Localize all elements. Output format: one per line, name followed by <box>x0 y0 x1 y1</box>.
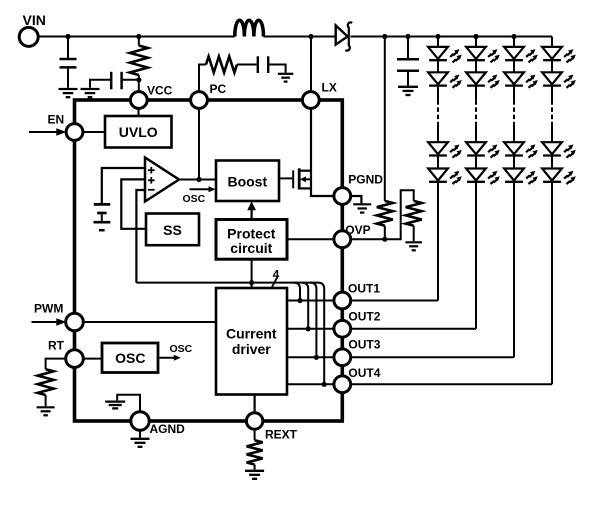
svg-text:REXT: REXT <box>265 427 298 441</box>
node OUT2 <box>334 320 351 337</box>
wire string 4 seg5 <box>551 156 553 169</box>
svg-text:OSC: OSC <box>183 193 206 205</box>
wire rail to R1 <box>138 37 140 46</box>
wire Boost to Q1 gate <box>279 177 292 179</box>
svg-text:OUT3: OUT3 <box>348 338 380 352</box>
node OVP <box>334 231 351 248</box>
resistor R4 (OVP lower) <box>406 201 422 226</box>
wire VIN rail segment A <box>37 36 235 38</box>
capacitor C3 (comp) <box>258 56 268 73</box>
LED D2a <box>466 47 500 63</box>
node REXT <box>246 413 262 429</box>
junction bus branch 4-OUT4 <box>322 382 327 387</box>
wire R3 to OVP node <box>384 226 386 240</box>
inductor L1 <box>235 20 264 36</box>
LED D2c <box>466 142 500 158</box>
diode D1 (schottky) <box>336 22 353 50</box>
wire PC node down to comp <box>198 108 200 179</box>
wire string 4 dashed continuation <box>551 100 553 124</box>
wire AGND hook to ground <box>117 395 140 413</box>
wire string 3 seg3 <box>513 86 515 101</box>
ground G9 <box>131 439 150 447</box>
svg-text:LX: LX <box>322 81 337 95</box>
resistor R6 (REXT) <box>247 440 263 464</box>
wire string 3 dashed continuation <box>513 100 515 124</box>
wire OUT4 to string 4 <box>351 383 552 385</box>
wire output rail segment <box>351 36 553 38</box>
node LED string 2 top <box>473 34 478 39</box>
wire OUT1 to string 1 <box>351 300 438 302</box>
capacitor C1 (input) <box>60 59 77 67</box>
junction rail-LX <box>308 34 313 39</box>
node AGND <box>131 412 149 430</box>
node VCC <box>130 92 147 109</box>
svg-text:OVP: OVP <box>345 223 370 237</box>
svg-text:VCC: VCC <box>147 83 173 97</box>
node OUT4 <box>334 376 351 393</box>
svg-text:driver: driver <box>232 341 271 357</box>
wire string 3 seg1 <box>513 37 515 47</box>
wire RT to R5 <box>46 359 67 370</box>
wire string 1 dashed continuation <box>437 100 439 124</box>
wire string 2 seg2 <box>475 60 477 72</box>
wire rail to C4 <box>407 37 409 59</box>
ground G5 <box>405 242 422 250</box>
wire PC node up <box>199 65 206 92</box>
svg-text:OUT1: OUT1 <box>348 281 380 295</box>
wire feedback bus <box>136 282 318 284</box>
wire string 4 seg3 <box>551 86 553 101</box>
svg-text:PGND: PGND <box>348 172 383 186</box>
wire PWM to Current driver <box>83 321 216 323</box>
wire string 2 seg3 <box>475 86 477 101</box>
wire REXT to R6 <box>254 430 256 441</box>
LED D1d <box>428 169 462 185</box>
node PGND <box>334 188 351 205</box>
wire string 2 dashed continuation <box>475 100 477 124</box>
resistor R3 (OVP upper) <box>377 201 393 226</box>
junction rail-R1 <box>136 34 141 39</box>
LED D1b <box>428 72 462 88</box>
svg-text:circuit: circuit <box>230 240 272 256</box>
block Current driver U6 <box>216 288 287 395</box>
node OUT3 <box>334 349 351 366</box>
wire bus branch 3 <box>310 283 316 358</box>
ground G2 <box>81 89 100 97</box>
svg-text:PWM: PWM <box>34 301 63 315</box>
wire string 3 seg5 <box>513 156 515 169</box>
svg-text:PC: PC <box>210 82 227 96</box>
LED D3a <box>504 47 538 63</box>
wire rail to R3 (OVP sense) <box>384 37 386 201</box>
LED D3b <box>504 72 538 88</box>
block UVLO U1 <box>105 116 172 148</box>
wire string 2 seg1 <box>475 37 477 47</box>
svg-text:4: 4 <box>273 268 280 282</box>
block SS U3 (soft start) <box>146 214 199 246</box>
capacitor C4 (output) <box>397 59 419 71</box>
wire string 1 seg3 <box>437 86 439 101</box>
svg-text:EN: EN <box>48 112 65 126</box>
svg-text:Boost: Boost <box>227 173 267 189</box>
arrow osc into Boost <box>190 186 216 192</box>
wire C2 right plate to VCC node <box>123 79 139 81</box>
wire R6 to ground <box>254 465 256 470</box>
wire Current driver to REXT <box>254 395 256 413</box>
wire RT to OSC box <box>83 358 102 360</box>
LED D1a <box>428 47 462 63</box>
wire L1 to D1 <box>264 36 336 38</box>
wire OVP node run <box>351 190 414 239</box>
wire Protect down to Current driver <box>251 259 253 288</box>
wire string 2 seg5 <box>475 156 477 169</box>
ground G7 <box>37 407 55 415</box>
arrow EN input <box>29 128 66 136</box>
resistor R2 (comp) <box>206 57 237 73</box>
wire OUT2 to string 2 <box>351 328 476 330</box>
ground G1 <box>59 89 78 97</box>
wire AGND to ground below <box>139 430 141 438</box>
svg-text:OSC: OSC <box>115 350 145 366</box>
wire string 4 seg4 <box>551 124 553 142</box>
ground G6 <box>398 87 418 95</box>
LED D3d <box>504 169 538 185</box>
wire U2 output to Boost <box>179 179 216 181</box>
terminal VIN <box>19 27 38 46</box>
wire Protect to OVP <box>287 238 334 240</box>
node RT <box>66 350 84 368</box>
LED D4d <box>542 169 576 185</box>
svg-text:OSC: OSC <box>170 343 193 355</box>
wire cap C1 lead <box>67 37 69 59</box>
junction bus branch 2-OUT2 <box>306 326 311 331</box>
arrow Protect to Boost <box>247 201 256 219</box>
wire string 1 seg2 <box>437 60 439 72</box>
wire Current driver to OUT2 <box>287 328 334 330</box>
svg-text:VIN: VIN <box>23 12 46 28</box>
wire string 2 seg4 <box>475 124 477 142</box>
wire string 3 seg2 <box>513 60 515 72</box>
wire string 1 seg5 <box>437 156 439 169</box>
wire U2 input 1 (reference) <box>102 168 145 203</box>
wire Current driver to OUT4 <box>287 383 334 385</box>
wire string 2 return to OUT2 <box>475 182 477 329</box>
arrow osc output <box>160 355 181 361</box>
wire Current driver to OUT1 <box>287 300 334 302</box>
wire R2 to C3 <box>237 64 257 66</box>
wire R4 to ground <box>413 226 415 242</box>
IC boundary <box>75 100 343 421</box>
LED D2d <box>466 169 500 185</box>
op-amp U2 (error comparator) <box>145 158 179 202</box>
svg-text:SS: SS <box>163 222 182 238</box>
resistor R5 (RT) <box>38 369 54 395</box>
wire string 4 seg1 <box>551 37 553 47</box>
ground G8 <box>105 402 125 409</box>
junction Protect-bus <box>249 280 254 285</box>
ground G3 <box>278 74 294 82</box>
node PC <box>191 92 208 109</box>
junction bus branch 3-OUT3 <box>314 355 319 360</box>
svg-text:OUT4: OUT4 <box>348 366 380 380</box>
wire UVLO to VCC <box>138 108 140 116</box>
wire C2 left plate to ground <box>90 80 110 88</box>
node LED string 1 top <box>435 34 440 39</box>
svg-text:AGND: AGND <box>150 422 186 436</box>
wire LX to Q1 drain and source to PGND <box>311 108 334 196</box>
capacitor C2 (VCC bypass) <box>111 72 121 90</box>
battery reference VREF <box>94 204 111 230</box>
ground G4 (PGND) <box>353 204 371 212</box>
wire string 3 return to OUT3 <box>513 182 515 357</box>
LED D2b <box>466 72 500 88</box>
wire EN to UVLO <box>83 131 105 133</box>
svg-text:OUT2: OUT2 <box>348 309 380 323</box>
wire string 4 seg2 <box>551 60 553 72</box>
LED D4a <box>542 47 576 63</box>
wire string 1 return to OUT1 <box>437 182 439 301</box>
wire R1 to VCC <box>138 75 140 92</box>
wire PGND to ground <box>351 196 362 203</box>
wire bus branch 2 <box>302 283 308 329</box>
wire string 1 seg1 <box>437 37 439 47</box>
node LX <box>302 92 319 109</box>
wire bus branch 4 <box>318 283 324 385</box>
wire string 1 seg4 <box>437 124 439 142</box>
svg-text:Current: Current <box>226 326 277 342</box>
transistor Q1 (power NMOS) <box>293 168 311 189</box>
wire string 3 seg4 <box>513 124 515 142</box>
svg-text:UVLO: UVLO <box>119 124 158 140</box>
svg-text:RT: RT <box>48 338 65 352</box>
wire U2 input 2 from SS <box>121 179 146 228</box>
junction rail-C1 <box>65 34 70 39</box>
junction R1-C2 <box>136 77 141 82</box>
LED D4b <box>542 72 576 88</box>
wire C1 to ground <box>67 69 69 88</box>
node PWM <box>66 313 84 331</box>
junction rail-OVP sense <box>382 34 387 39</box>
wire C3 to ground <box>269 65 285 73</box>
wire string 4 return to OUT4 <box>551 182 553 384</box>
block Boost U4 <box>216 161 279 202</box>
junction rail-C4 <box>405 34 410 39</box>
junction PC-comp <box>196 177 201 182</box>
junction bus branch 1-OUT1 <box>297 298 302 303</box>
node OUT1 <box>334 292 351 309</box>
ground G10 <box>245 471 264 479</box>
block Protect circuit U5 <box>216 220 287 260</box>
LED D1c <box>428 142 462 158</box>
wire OUT3 to string 3 <box>351 356 514 358</box>
wire C4 to ground <box>407 72 409 86</box>
block OSC U7 (oscillator) <box>102 343 158 373</box>
node EN <box>66 124 83 141</box>
LED D4c <box>542 142 576 158</box>
wire bus branch 1 <box>294 283 300 301</box>
junction OVP-R3 <box>382 237 387 242</box>
wire R5 to ground <box>45 395 47 406</box>
resistor R1 (VCC feed) <box>130 46 148 76</box>
wire Current driver to OUT3 <box>287 356 334 358</box>
bus width slash <box>271 277 277 289</box>
arrow PWM input <box>32 318 67 326</box>
LED D3c <box>504 142 538 158</box>
op-amp U2 input polarity marks <box>148 167 155 190</box>
node LED string 3 top <box>511 34 516 39</box>
wire rail to LX <box>310 37 312 92</box>
wire U2 input 3 (feedback) to bus <box>136 190 145 283</box>
